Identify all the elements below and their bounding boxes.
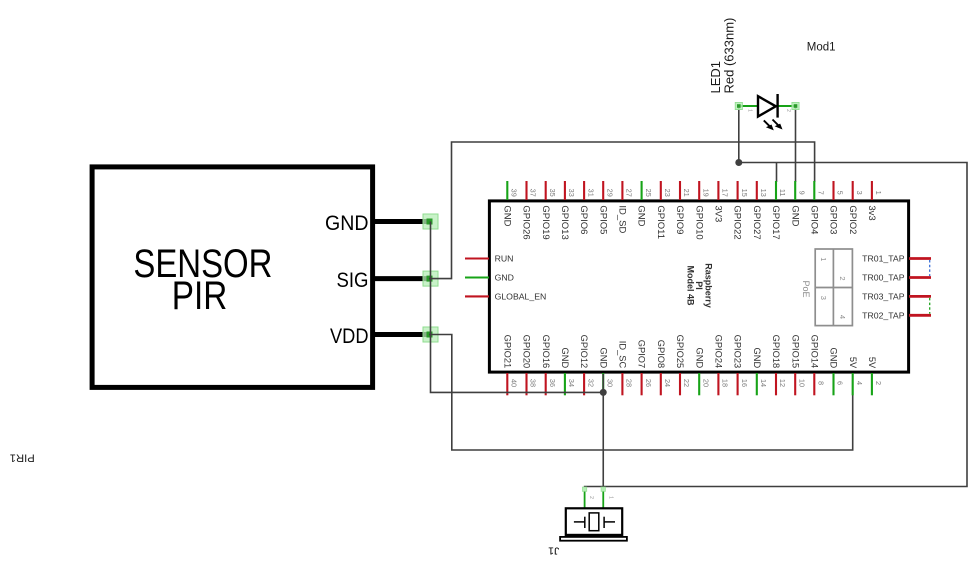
svg-text:TR00_TAP: TR00_TAP xyxy=(862,273,905,283)
svg-text:GPIO21: GPIO21 xyxy=(502,335,512,369)
svg-text:3V3: 3V3 xyxy=(713,205,724,222)
svg-text:37: 37 xyxy=(529,189,538,197)
svg-text:1: 1 xyxy=(874,191,883,195)
svg-text:GLOBAL_EN: GLOBAL_EN xyxy=(495,292,547,302)
svg-text:31: 31 xyxy=(586,189,595,197)
svg-text:20: 20 xyxy=(701,379,710,387)
svg-text:27: 27 xyxy=(625,189,634,197)
svg-text:TR01_TAP: TR01_TAP xyxy=(862,254,905,264)
svg-text:GND: GND xyxy=(636,205,647,226)
svg-text:TR02_TAP: TR02_TAP xyxy=(862,310,905,320)
svg-text:GPIO7: GPIO7 xyxy=(637,340,647,368)
svg-text:RUN: RUN xyxy=(495,254,514,264)
svg-text:23: 23 xyxy=(663,189,672,197)
svg-text:GPIO27: GPIO27 xyxy=(751,205,762,239)
svg-text:5V: 5V xyxy=(848,357,858,369)
svg-text:PIR1: PIR1 xyxy=(10,452,35,464)
svg-text:GPIO11: GPIO11 xyxy=(655,205,666,239)
svg-text:GPIO3: GPIO3 xyxy=(828,205,839,234)
svg-text:19: 19 xyxy=(701,189,710,197)
svg-text:16: 16 xyxy=(740,379,749,387)
svg-text:GPIO4: GPIO4 xyxy=(808,205,819,234)
svg-text:18: 18 xyxy=(721,379,730,387)
svg-text:PoE: PoE xyxy=(801,280,811,297)
svg-text:8: 8 xyxy=(817,381,826,385)
svg-text:13: 13 xyxy=(759,189,768,197)
svg-text:3: 3 xyxy=(819,296,828,300)
svg-text:30: 30 xyxy=(606,379,615,387)
svg-text:25: 25 xyxy=(644,189,653,197)
svg-text:9: 9 xyxy=(797,191,806,195)
svg-text:GPIO16: GPIO16 xyxy=(541,335,551,369)
svg-text:35: 35 xyxy=(548,189,557,197)
svg-text:GND: GND xyxy=(495,273,514,283)
svg-text:39: 39 xyxy=(510,189,519,197)
svg-text:14: 14 xyxy=(759,379,768,387)
svg-text:5V: 5V xyxy=(867,357,877,369)
svg-text:21: 21 xyxy=(682,189,691,197)
svg-text:32: 32 xyxy=(586,379,595,387)
svg-text:2: 2 xyxy=(785,109,791,112)
svg-text:LED1: LED1 xyxy=(708,61,723,94)
svg-text:GPIO10: GPIO10 xyxy=(693,205,704,239)
svg-text:GPIO14: GPIO14 xyxy=(809,335,819,369)
svg-text:GPIO15: GPIO15 xyxy=(790,335,800,369)
svg-text:GPIO8: GPIO8 xyxy=(656,340,666,368)
svg-text:GND: GND xyxy=(789,205,800,226)
svg-text:VDD: VDD xyxy=(330,325,369,348)
svg-text:GPIO17: GPIO17 xyxy=(770,205,781,239)
svg-text:GPIO5: GPIO5 xyxy=(597,205,608,234)
svg-text:1: 1 xyxy=(746,109,752,112)
svg-text:ID_SC: ID_SC xyxy=(618,341,628,369)
svg-text:38: 38 xyxy=(529,379,538,387)
svg-text:17: 17 xyxy=(721,189,730,197)
svg-text:GND: GND xyxy=(325,212,369,235)
svg-text:TR03_TAP: TR03_TAP xyxy=(862,292,905,302)
svg-text:22: 22 xyxy=(682,379,691,387)
svg-text:1: 1 xyxy=(819,257,828,261)
svg-text:GPIO2: GPIO2 xyxy=(847,205,858,234)
svg-text:36: 36 xyxy=(548,379,557,387)
svg-text:26: 26 xyxy=(644,379,653,387)
svg-text:GND: GND xyxy=(560,348,570,369)
svg-text:34: 34 xyxy=(567,379,576,387)
svg-text:3v3: 3v3 xyxy=(866,205,877,220)
svg-text:11: 11 xyxy=(778,189,787,197)
svg-text:40: 40 xyxy=(510,379,519,387)
svg-text:GND: GND xyxy=(829,348,839,369)
svg-text:GND: GND xyxy=(694,348,704,369)
svg-text:PIR: PIR xyxy=(172,274,228,318)
svg-text:7: 7 xyxy=(817,191,826,195)
svg-text:J1: J1 xyxy=(548,545,559,557)
svg-text:GPIO6: GPIO6 xyxy=(578,205,589,234)
svg-text:2: 2 xyxy=(874,381,883,385)
svg-text:GND: GND xyxy=(501,205,512,226)
svg-text:GPIO23: GPIO23 xyxy=(733,335,743,369)
svg-text:2: 2 xyxy=(838,276,847,280)
svg-text:SIG: SIG xyxy=(337,269,369,292)
svg-text:15: 15 xyxy=(740,189,749,197)
svg-text:29: 29 xyxy=(606,189,615,197)
svg-text:6: 6 xyxy=(836,381,845,385)
svg-text:Mod1: Mod1 xyxy=(807,42,836,54)
svg-text:4: 4 xyxy=(838,315,847,319)
svg-text:2: 2 xyxy=(588,496,594,499)
svg-text:GPIO26: GPIO26 xyxy=(521,205,532,239)
svg-text:GND: GND xyxy=(598,348,608,369)
svg-text:GPIO20: GPIO20 xyxy=(522,335,532,369)
svg-text:10: 10 xyxy=(797,379,806,387)
svg-text:Red (633nm): Red (633nm) xyxy=(722,18,737,94)
svg-text:GPIO12: GPIO12 xyxy=(579,335,589,369)
svg-text:24: 24 xyxy=(663,379,672,387)
svg-text:GND: GND xyxy=(752,348,762,369)
svg-text:Model 4B: Model 4B xyxy=(685,265,695,306)
svg-text:1: 1 xyxy=(607,496,613,499)
svg-text:GPIO9: GPIO9 xyxy=(674,205,685,234)
svg-text:GPIO24: GPIO24 xyxy=(714,335,724,369)
svg-text:GPIO19: GPIO19 xyxy=(540,205,551,239)
svg-text:3: 3 xyxy=(855,191,864,195)
svg-text:ID_SD: ID_SD xyxy=(617,205,628,233)
svg-text:5: 5 xyxy=(836,191,845,195)
svg-text:GPIO25: GPIO25 xyxy=(675,335,685,369)
svg-text:33: 33 xyxy=(567,189,576,197)
svg-text:GPIO13: GPIO13 xyxy=(559,205,570,239)
svg-text:4: 4 xyxy=(855,381,864,385)
svg-text:GPIO22: GPIO22 xyxy=(732,205,743,239)
svg-text:GPIO18: GPIO18 xyxy=(771,335,781,369)
svg-text:28: 28 xyxy=(625,379,634,387)
svg-text:12: 12 xyxy=(778,379,787,387)
